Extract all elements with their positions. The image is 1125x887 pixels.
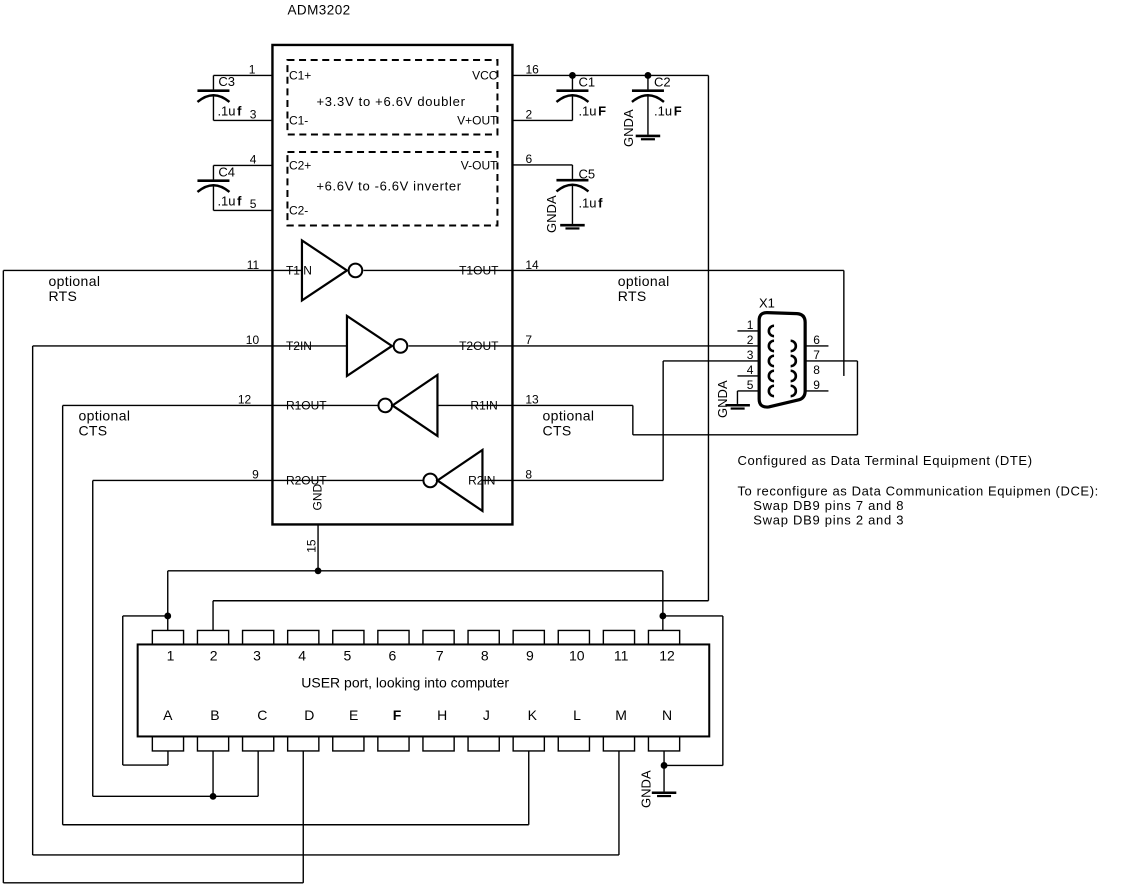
svg-text:2: 2: [747, 333, 754, 347]
USER port bottom tab 7: [423, 736, 454, 751]
wire VCC pin16 horizontal: [512, 74, 708, 76]
USER port top tab 2: [197, 630, 228, 644]
svg-text:4: 4: [298, 647, 306, 663]
svg-text:5: 5: [747, 378, 754, 392]
wire down to DB9 pin8: [843, 270, 845, 376]
DB9 pin 6 contact arc: [791, 341, 796, 351]
svg-text:12: 12: [238, 392, 252, 406]
wire GND A-loop vertical: [122, 616, 124, 765]
wire R1OUT bottom horizontal: [63, 824, 529, 826]
receiver R1 triangle: [392, 375, 437, 436]
svg-text:1: 1: [747, 318, 754, 332]
svg-text:C2: C2: [654, 74, 671, 89]
wire up to user port pin M: [618, 751, 620, 855]
DB9 pin 1 contact arc: [769, 326, 774, 336]
svg-text:6: 6: [525, 152, 532, 166]
wire T2IN bottom horizontal: [33, 854, 619, 856]
driver T2 bubble: [394, 339, 408, 353]
USER port bottom tab 8: [468, 736, 499, 751]
svg-text:7: 7: [813, 348, 820, 362]
wire GND horizontal: [168, 570, 663, 572]
svg-text:GNDA: GNDA: [544, 195, 559, 233]
junction GND pin12/N: [659, 613, 666, 620]
wire pin15 GND down: [317, 524, 319, 570]
wire up to user port pin D: [302, 751, 304, 883]
ground GNDA below C5: [560, 225, 585, 228]
svg-text:V+OUT: V+OUT: [457, 114, 498, 128]
wire DB9 pin5: [737, 390, 759, 392]
driver T1 triangle: [302, 240, 347, 300]
USER port top tab 7: [423, 630, 454, 644]
USER port bottom tab 4: [288, 736, 319, 751]
USER port bottom tab 11: [603, 736, 634, 751]
wire T1IN pin11: [3, 269, 302, 271]
svg-text:.1u: .1u: [217, 103, 235, 118]
svg-text:+6.6V to -6.6V inverter: +6.6V to -6.6V inverter: [316, 178, 461, 193]
DB9 pin 2 contact arc: [769, 341, 774, 351]
svg-text:4: 4: [250, 152, 257, 166]
svg-text:K: K: [528, 707, 538, 723]
svg-text:optional: optional: [618, 273, 670, 289]
svg-text:3: 3: [747, 348, 754, 362]
svg-text:1: 1: [249, 62, 256, 76]
svg-text:USER port, looking into comput: USER port, looking into computer: [301, 675, 509, 691]
receiver R2 triangle: [437, 450, 482, 511]
svg-text:ADM3202: ADM3202: [287, 3, 350, 18]
svg-text:GNDA: GNDA: [621, 109, 636, 147]
wire T1IN vertical far left: [2, 270, 4, 882]
connector USER port body: [138, 644, 710, 736]
wire GND N-loop vertical: [722, 616, 724, 766]
USER port bottom tab 12: [648, 736, 679, 751]
USER port top tab 4: [288, 630, 319, 644]
wire DB9 pin6 stub: [806, 345, 828, 347]
USER port bottom tab 2: [197, 736, 228, 751]
svg-text:+3.3V to +6.6V doubler: +3.3V to +6.6V doubler: [316, 94, 465, 109]
svg-text:9: 9: [252, 467, 259, 481]
wire up to user port pin K: [528, 751, 530, 825]
wire pin6 V-OUT to C5: [512, 164, 572, 166]
svg-text:X1: X1: [759, 295, 775, 310]
svg-text:f: f: [237, 193, 242, 208]
USER port top tab 12: [648, 630, 679, 644]
capacitor C5: [556, 165, 588, 224]
svg-text:.1u: .1u: [217, 193, 235, 208]
svg-text:E: E: [349, 707, 358, 723]
svg-text:f: f: [237, 103, 242, 118]
DB9 pin 5 contact arc: [769, 386, 774, 396]
wire R1OUT pin12: [63, 404, 379, 406]
svg-text:C2-: C2-: [289, 204, 308, 218]
USER port bottom tab 3: [243, 736, 274, 751]
junction C1/VCC: [569, 72, 576, 79]
svg-text:F: F: [393, 707, 402, 723]
junction pin B: [210, 793, 217, 800]
svg-text:RTS: RTS: [48, 288, 77, 304]
svg-text:H: H: [437, 707, 447, 723]
svg-text:GND: GND: [310, 483, 324, 510]
wire VCC down to pin2 tab: [212, 601, 214, 631]
svg-text:6: 6: [389, 647, 397, 663]
svg-text:F: F: [674, 103, 682, 118]
receiver R2 bubble: [423, 474, 437, 488]
wire R1IN pin13: [437, 404, 632, 406]
svg-text:3: 3: [253, 647, 261, 663]
svg-text:4: 4: [747, 363, 754, 377]
svg-text:GNDA: GNDA: [638, 770, 653, 808]
USER port bottom tab 10: [558, 736, 589, 751]
wire T1IN bottom horizontal: [3, 882, 303, 884]
wire T1 bubble to IC edge: [363, 269, 512, 271]
DB9 pin 8 contact arc: [791, 371, 796, 381]
svg-text:Swap DB9 pins 7 and 8: Swap DB9 pins 7 and 8: [753, 498, 904, 513]
svg-text:VCC: VCC: [472, 69, 498, 83]
wire T2IN vertical: [32, 346, 34, 855]
wire up to DB9 pin7: [856, 361, 858, 435]
wire pin5 to C4: [213, 209, 272, 211]
op-amp U1 ADM3202 body: [272, 45, 512, 525]
USER port top tab 1: [152, 630, 183, 644]
wire R2OUT bottom horizontal: [93, 795, 258, 797]
svg-text:13: 13: [525, 392, 539, 406]
svg-text:1: 1: [167, 647, 175, 663]
DB9 pin 4 contact arc: [769, 371, 774, 381]
junction GND pin15: [315, 567, 322, 574]
svg-text:C: C: [257, 707, 267, 723]
driver T2 triangle: [347, 316, 392, 376]
svg-text:3: 3: [250, 107, 257, 121]
wire T2OUT pin7 to DB9 pin2: [408, 345, 759, 347]
svg-text:12: 12: [659, 647, 675, 663]
svg-text:optional: optional: [78, 407, 130, 423]
wire DB9 pin5 down to ground: [736, 391, 738, 404]
wire R2IN pin8: [482, 479, 663, 481]
wire VCC vertical right: [707, 75, 709, 600]
wire pin N down to ground: [663, 751, 665, 792]
USER port top tab 10: [558, 630, 589, 644]
wire pin3 to C3: [213, 119, 272, 121]
svg-text:10: 10: [246, 333, 260, 347]
USER port top tab 8: [468, 630, 499, 644]
USER port bottom tab 6: [378, 736, 409, 751]
svg-text:M: M: [615, 707, 627, 723]
wire R1OUT vertical: [62, 405, 64, 824]
svg-text:V-OUT: V-OUT: [461, 159, 498, 173]
svg-text:16: 16: [525, 62, 539, 76]
wire pin2 V+OUT to C1: [512, 119, 572, 121]
wire T1OUT pin14 to DB9 pin8: [512, 269, 843, 271]
svg-text:J: J: [483, 707, 490, 723]
wire GND up to pin A tab: [167, 751, 169, 765]
svg-text:9: 9: [526, 647, 534, 663]
svg-text:.1u: .1u: [578, 103, 596, 118]
junction C2/VCC: [645, 72, 652, 79]
svg-text:optional: optional: [543, 407, 595, 423]
wire DB9 pin4 stub: [737, 375, 759, 377]
svg-text:8: 8: [525, 467, 532, 481]
svg-text:C3: C3: [218, 74, 235, 89]
DB9 pin 3 contact arc: [769, 356, 774, 366]
wire GND A-loop top: [123, 615, 168, 617]
wire DB9 pin7: [806, 360, 857, 362]
USER port top tab 11: [603, 630, 634, 644]
svg-text:N: N: [662, 707, 672, 723]
svg-text:RTS: RTS: [618, 288, 647, 304]
wire R2OUT vertical: [92, 480, 94, 796]
svg-text:C1+: C1+: [289, 69, 311, 83]
svg-text:8: 8: [813, 363, 820, 377]
junction GND pin N: [661, 762, 668, 769]
ground GNDA below C2: [636, 136, 661, 139]
svg-text:9: 9: [813, 378, 820, 392]
svg-text:CTS: CTS: [543, 422, 572, 438]
svg-text:.1u: .1u: [578, 195, 596, 210]
ground GNDA at DB9 pin5: [725, 405, 750, 408]
charge-pump inverter dashed box: [287, 152, 497, 226]
svg-text:11: 11: [614, 647, 629, 663]
svg-text:6: 6: [813, 333, 820, 347]
svg-text:C1-: C1-: [289, 114, 308, 128]
wire T2IN pin10: [33, 345, 347, 347]
svg-text:C1: C1: [578, 74, 595, 89]
svg-text:A: A: [163, 707, 173, 723]
svg-text:7: 7: [525, 333, 532, 347]
USER port top tab 9: [513, 630, 544, 644]
wire R1IN horizontal to right: [633, 434, 858, 436]
capacitor C2: [632, 75, 664, 134]
DB9 pin 9 contact arc: [791, 386, 796, 396]
svg-text:10: 10: [569, 647, 585, 663]
svg-text:5: 5: [250, 197, 257, 211]
wire pin1 to C3: [213, 74, 272, 76]
svg-text:D: D: [304, 707, 314, 723]
svg-text:5: 5: [343, 647, 351, 663]
driver T1 bubble: [349, 264, 363, 278]
svg-text:L: L: [573, 707, 581, 723]
wire up to user port pin B: [212, 751, 214, 796]
capacitor C4: [197, 165, 229, 210]
USER port bottom tab 9: [513, 736, 544, 751]
wire GND N-loop bottom: [664, 764, 723, 766]
svg-text:Swap DB9 pins 2 and 3: Swap DB9 pins 2 and 3: [753, 512, 904, 527]
wire DB9 pin1 stub: [737, 330, 759, 332]
svg-text:C5: C5: [578, 166, 595, 181]
svg-text:7: 7: [436, 647, 444, 663]
wire GND down to pin1 tab: [167, 571, 169, 631]
svg-text:F: F: [598, 103, 606, 118]
ground GNDA below pin N: [652, 793, 677, 796]
wire VCC to user port pin 2: [213, 600, 708, 602]
svg-text:C4: C4: [218, 164, 235, 179]
wire DB9 pin3: [663, 360, 759, 362]
USER port top tab 5: [333, 630, 364, 644]
wire pin4 to C4: [213, 164, 272, 166]
svg-text:2: 2: [525, 107, 532, 121]
svg-text:B: B: [210, 707, 219, 723]
svg-text:f: f: [598, 195, 603, 210]
charge-pump doubler dashed box: [287, 60, 497, 135]
svg-text:CTS: CTS: [78, 422, 107, 438]
connector X1 DB9 body: [759, 313, 805, 407]
svg-text:15: 15: [304, 539, 318, 553]
wire GND A-loop bottom: [123, 764, 168, 766]
wire GND down to pin12 tab: [662, 571, 664, 631]
svg-text:2: 2: [210, 647, 218, 663]
svg-text:C2+: C2+: [289, 159, 311, 173]
DB9 pin 7 contact arc: [791, 356, 796, 366]
capacitor C3: [197, 75, 229, 120]
svg-text:GNDA: GNDA: [715, 380, 730, 418]
receiver R1 bubble: [378, 399, 392, 413]
USER port top tab 3: [243, 630, 274, 644]
wire R2OUT pin9: [93, 479, 424, 481]
capacitor C1: [556, 75, 588, 120]
wire R2IN up to DB9 pin3: [662, 361, 664, 481]
svg-text:.1u: .1u: [654, 103, 672, 118]
wire DB9 pin9 stub: [806, 390, 828, 392]
svg-text:optional: optional: [48, 273, 100, 289]
wire R1IN jog down: [632, 405, 634, 434]
junction GND pin1/A: [164, 613, 171, 620]
wire GND N-loop top: [663, 615, 723, 617]
USER port bottom tab 1: [152, 736, 183, 751]
svg-text:8: 8: [481, 647, 489, 663]
svg-text:Configured as Data Terminal Eq: Configured as Data Terminal Equipment (D…: [737, 453, 1032, 468]
USER port top tab 6: [378, 630, 409, 644]
wire up to user port pin C: [257, 751, 259, 796]
svg-text:To reconfigure as Data Communi: To reconfigure as Data Communication Equ…: [737, 483, 1098, 498]
USER port bottom tab 5: [333, 736, 364, 751]
